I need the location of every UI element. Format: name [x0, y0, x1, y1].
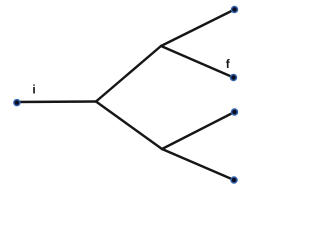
wire: branch D down to bottom terminal [162, 149, 234, 180]
svg-text:f: f [226, 57, 231, 71]
wire: branch C down to terminal f [161, 46, 234, 78]
node f (second terminal dot) [231, 75, 237, 81]
wire: branch C up to top terminal [161, 10, 235, 47]
svg-text:i: i [32, 83, 35, 97]
wire: branch D up to third terminal [162, 112, 235, 149]
wire: branch B down to branch D [96, 102, 162, 150]
wire: branch B up to branch C [96, 46, 161, 102]
node: third terminal dot [232, 109, 238, 115]
wire: node i to branch B [17, 100, 97, 103]
node: top terminal dot [232, 7, 238, 13]
node: bottom terminal dot [231, 177, 237, 183]
node i (left dot) [14, 100, 20, 106]
